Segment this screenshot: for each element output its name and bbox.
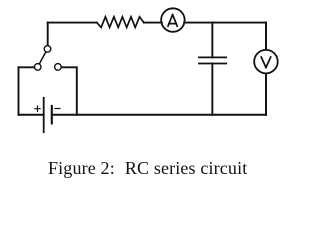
- wire resistor to ammeter: [144, 22, 162, 24]
- wire left edge vertical: [18, 67, 20, 115]
- capacitor: [199, 57, 226, 63]
- wire ammeter to top-right corner: [184, 22, 266, 24]
- voltmeter V: [254, 50, 278, 74]
- wire from switch right terminal: [62, 67, 77, 115]
- wire bottom right segment: [52, 114, 266, 116]
- wire top-left vertical: [47, 23, 49, 46]
- wire to switch left terminal: [19, 66, 35, 68]
- switch: [34, 46, 61, 71]
- wire capacitor top stub: [211, 23, 213, 58]
- wire capacitor bottom stub: [211, 64, 213, 115]
- caption: [48, 158, 247, 179]
- wire bottom left segment: [19, 114, 44, 116]
- wire right edge top: [265, 23, 267, 50]
- ammeter A: [161, 8, 185, 32]
- wire top left segment: [48, 22, 97, 24]
- wire right edge bottom: [265, 74, 267, 115]
- resistor: [97, 17, 144, 28]
- battery: [35, 98, 60, 132]
